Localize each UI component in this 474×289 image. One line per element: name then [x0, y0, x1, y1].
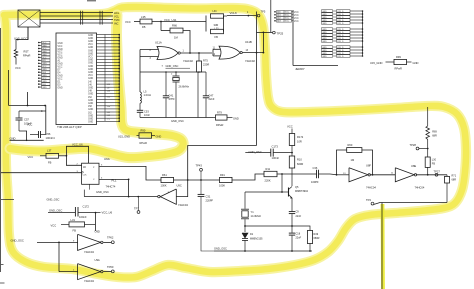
svg-text:GND: GND [88, 53, 93, 55]
resistor R75 220R [198, 53, 200, 61]
wire VCLK [227, 15, 257, 17]
svg-text:R60: R60 [348, 143, 353, 147]
svg-text:C31: C31 [206, 194, 211, 198]
wires U11A inputs [140, 49, 158, 51]
wire R61 to R91 [174, 179, 220, 181]
svg-text:VCLK: VCLK [230, 11, 237, 15]
svg-text:C41: C41 [169, 93, 174, 97]
capacitor C31 220PF [200, 180, 202, 194]
svg-text:GND: GND [88, 60, 93, 62]
svg-text:RPwR: RPwR [395, 67, 402, 71]
osc top bus [140, 71, 206, 73]
scan mark top edge [87, 0, 96, 2]
svg-text:L30: L30 [432, 158, 437, 161]
svg-text:VCC: VCC [51, 223, 57, 227]
svg-text:MMBV2105: MMBV2105 [250, 237, 263, 240]
svg-text:GND: GND [233, 116, 239, 120]
svg-text:R10: R10 [297, 158, 302, 162]
highlighter inner return stroke around R90 [10, 15, 183, 158]
capacitor C47 22nF [205, 72, 207, 96]
svg-text:22nF: 22nF [209, 97, 215, 101]
test point TP7 [137, 197, 139, 211]
svg-text:FB: FB [73, 228, 77, 232]
nor gate U11A [157, 47, 178, 60]
svg-text:22nF: 22nF [296, 215, 302, 218]
node VCC_U11 [160, 21, 162, 23]
svg-text:GND: GND [88, 47, 93, 49]
svg-text:U8F: U8F [366, 164, 371, 168]
wire to Q5 base [281, 174, 283, 192]
svg-text:220PF: 220PF [206, 198, 214, 202]
wire J2 row 1 [40, 12, 113, 14]
capacitor C172 100nF [74, 207, 76, 217]
capacitor C57 [18, 111, 20, 118]
transistor Q5 MMBT3904 [287, 188, 289, 197]
svg-text:VCC: VCC [287, 125, 293, 129]
wire R91 to R11 [232, 174, 264, 180]
wire preset loop [66, 146, 88, 163]
wire PLL output [99, 178, 129, 180]
wire R99 to GND [407, 61, 412, 63]
svg-text:FB: FB [215, 35, 219, 39]
svg-text:JERRY: JERRY [295, 67, 305, 71]
svg-text:GND: GND [88, 78, 93, 80]
svg-text:GND: GND [88, 69, 93, 71]
wire U8E output [416, 174, 447, 176]
U1 right pins and wires to bus [97, 34, 106, 36]
wire PLL down [128, 179, 130, 196]
svg-text:1D: 1D [83, 167, 86, 169]
capacitor C18 22nF [291, 226, 293, 233]
svg-text:U6A: U6A [104, 157, 110, 161]
IC U1 body TIM 206 ALT QFP [56, 33, 97, 125]
svg-text:680R: 680R [314, 237, 320, 240]
svg-text:R11: R11 [266, 167, 271, 171]
svg-text:GND: GND [58, 43, 63, 45]
svg-text:VCC_U11: VCC_U11 [164, 18, 177, 22]
svg-text:GND: GND [88, 94, 93, 96]
svg-text:R91: R91 [220, 173, 225, 177]
highlighter straight vertical line at TP4 [379, 204, 387, 289]
svg-text:10nF: 10nF [144, 113, 150, 117]
svg-text:C18: C18 [296, 232, 301, 235]
svg-text:TP60: TP60 [107, 265, 114, 269]
wire PLL to R61 bend [99, 166, 161, 180]
wire J2 to U13 [27, 27, 29, 40]
wire TP4 down (highlighted) [381, 203, 383, 289]
svg-text:TP62: TP62 [107, 236, 114, 240]
svg-text:74HC04: 74HC04 [178, 203, 188, 207]
wire TP25 node down to gate output [262, 32, 264, 52]
svg-text:VCC: VCC [88, 57, 93, 59]
svg-text:R49: R49 [314, 233, 319, 236]
test point TP62 [111, 241, 114, 244]
inverter U9A [78, 264, 101, 280]
svg-text:GND_OSC: GND_OSC [47, 198, 60, 202]
svg-text:GND: GND [88, 66, 93, 68]
wire to R99 [386, 61, 395, 63]
svg-text:220R: 220R [203, 62, 209, 66]
svg-text:22nF: 22nF [296, 237, 302, 240]
bus line right block [362, 11, 364, 56]
wire J2 row 3 [40, 19, 113, 21]
ferrite L33 FB [211, 29, 224, 33]
svg-text:GND: GND [42, 87, 47, 89]
ferrite bead L35 [140, 19, 152, 24]
svg-text:VCC: VCC [294, 12, 299, 14]
svg-text:TP7: TP7 [134, 206, 139, 210]
svg-text:GND_OSC: GND_OSC [96, 190, 109, 194]
svg-text:GND: GND [322, 41, 327, 43]
ferrite L30 FB [427, 174, 429, 176]
svg-text:RPwR: RPwR [23, 54, 30, 58]
svg-text:R71: R71 [452, 175, 457, 178]
svg-text:GND: GND [88, 38, 93, 40]
wire bus to U9A [59, 271, 78, 273]
crystal Y2 26.6MHz [175, 72, 177, 76]
svg-text:GND: GND [58, 87, 63, 89]
svg-text:C172: C172 [83, 204, 90, 208]
pin dots and boxed net labels [38, 42, 40, 44]
bus ripper rows right block [322, 10, 333, 13]
bus line right of U1 [118, 35, 120, 122]
wire R66 to output node [183, 31, 190, 54]
svg-text:74HC02: 74HC02 [183, 59, 193, 63]
wire inner [19, 110, 46, 112]
svg-text:GND_OSC: GND_OSC [249, 150, 262, 154]
svg-text:220K: 220K [265, 178, 271, 182]
inductor L5 1.0UH [140, 92, 141, 95]
wire R75 to ground bus [197, 72, 199, 118]
svg-text:VCC: VCC [58, 78, 63, 80]
resistor 33R [211, 14, 224, 18]
svg-text:U11A: U11A [155, 40, 162, 44]
svg-text:TP43: TP43 [196, 164, 203, 168]
wire left edge down to C57 loop [8, 70, 10, 106]
capacitor C56 [30, 134, 39, 136]
wire Y1 to base node [245, 191, 282, 193]
svg-text:L31: L31 [71, 218, 76, 222]
scan mark bottom left 2 [0, 282, 5, 284]
svg-text:TP25: TP25 [277, 32, 284, 36]
connector rows above JERRY [274, 11, 276, 13]
svg-text:L33: L33 [215, 27, 220, 30]
svg-text:GND: GND [88, 109, 93, 111]
test point TP60 [111, 270, 114, 273]
svg-text:U15_D: U15_D [337, 23, 344, 25]
svg-text:GND: GND [58, 75, 63, 77]
wire U9C input from VCLK net [176, 146, 256, 197]
svg-text:GND_OSC: GND_OSC [214, 247, 227, 251]
svg-text:C47: C47 [209, 93, 214, 97]
parallel block right wire [223, 16, 225, 32]
svg-text:100PF: 100PF [311, 180, 319, 184]
svg-text:L34: L34 [213, 10, 218, 13]
svg-text:GND: GND [88, 35, 93, 37]
svg-text:820R: 820R [297, 162, 303, 166]
capacitor C36 100PF [316, 170, 318, 178]
svg-text:100nF: 100nF [79, 215, 87, 219]
resistor R71 68R [446, 175, 448, 177]
svg-text:PLL: PLL [112, 179, 117, 183]
svg-text:U8E: U8E [411, 164, 416, 168]
wire GND_OSC to U9D [37, 241, 78, 243]
wire U8F to U8E [370, 174, 396, 176]
wire loop top [9, 106, 46, 135]
svg-text:VCC: VCC [28, 155, 34, 159]
wire R11 to C36 [277, 173, 317, 175]
wire U11A output [181, 52, 212, 54]
wire U9A to TP60 [103, 271, 111, 273]
test point TP28 [419, 148, 428, 150]
svg-text:VCC: VCC [125, 20, 131, 24]
svg-text:U15_D: U15_D [337, 41, 344, 43]
svg-text:TP27: TP27 [434, 169, 441, 173]
svg-text:VCC: VCC [88, 44, 93, 46]
resistor R90 RPwR [139, 133, 152, 138]
svg-text:C53: C53 [144, 110, 149, 114]
svg-text:1M: 1M [351, 158, 355, 162]
svg-text:C36: C36 [313, 166, 318, 170]
wire TP4 net [374, 203, 447, 205]
svg-text:L35: L35 [141, 15, 146, 19]
svg-text:U15_GND: U15_GND [370, 61, 382, 65]
svg-text:TMC: TMC [114, 18, 120, 22]
wire D1 node to C9 node [245, 225, 292, 227]
svg-text:GND: GND [88, 72, 93, 74]
wire R172 to R10 [291, 146, 293, 157]
svg-text:RST: RST [24, 49, 30, 53]
wire R10 to Q5 collector [291, 168, 293, 186]
svg-text:GND: GND [88, 50, 93, 52]
wire J2 row 2 [40, 15, 113, 17]
crystal Y1 14.3MHz [241, 208, 249, 210]
varactor D1 MMBV2105 [242, 233, 248, 238]
svg-text:GND: GND [58, 58, 63, 60]
scan border left edge [0, 28, 1, 272]
resistor R61 100K [161, 177, 174, 182]
pin ladder edge of U1 [104, 35, 106, 122]
svg-text:100K: 100K [161, 184, 167, 188]
resistor RST RPWR pullup [15, 40, 17, 50]
svg-text:MMBT3904: MMBT3904 [295, 190, 309, 193]
svg-text:VCC: VCC [294, 18, 299, 20]
svg-text:U15_D: U15_D [337, 56, 344, 58]
svg-text:INC: INC [114, 21, 119, 25]
inverter U8F [349, 168, 368, 182]
svg-text:100nF: 100nF [272, 156, 280, 160]
svg-text:GND: GND [413, 61, 419, 65]
svg-text:U9C: U9C [177, 184, 182, 188]
svg-text:GND: GND [10, 136, 16, 140]
resistor R11 220K [264, 171, 277, 176]
resistor R10 820R [289, 156, 294, 168]
svg-text:C173: C173 [272, 144, 279, 148]
svg-text:CLK: CLK [83, 174, 88, 176]
resistor R172 10R [289, 134, 294, 146]
svg-text:GND: GND [156, 134, 162, 138]
svg-text:VCC: VCC [294, 15, 299, 17]
svg-text:VCC: VCC [58, 52, 63, 54]
svg-text:1.0UH: 1.0UH [144, 93, 151, 97]
svg-text:C56: C56 [46, 132, 51, 136]
svg-text:GND_OSC: GND_OSC [11, 238, 24, 242]
svg-text:GND_OSC: GND_OSC [171, 119, 184, 123]
svg-text:68R: 68R [432, 135, 437, 138]
svg-text:RPwR: RPwR [216, 123, 223, 127]
svg-text:FB: FB [142, 25, 146, 29]
wire J2 row 4 [40, 22, 113, 24]
connector J2 body [18, 10, 40, 27]
wire L35 to node [152, 21, 206, 23]
svg-text:GND: GND [88, 41, 93, 43]
svg-text:RPwR: RPwR [140, 141, 147, 145]
svg-text:74HC04: 74HC04 [366, 186, 376, 190]
svg-text:R79: R79 [217, 111, 222, 115]
feedback resistor R60 1M [336, 174, 338, 176]
svg-text:GND_OSC: GND_OSC [166, 64, 179, 68]
svg-text:74HC04: 74HC04 [415, 186, 425, 190]
svg-text:100K: 100K [219, 184, 225, 188]
wire CLK input from left edge [1, 172, 82, 174]
flip-flop U6A body [82, 163, 99, 184]
wire TP25 row [257, 31, 273, 33]
wires U11B inputs [213, 48, 220, 50]
svg-text:33R: 33R [214, 23, 219, 27]
inverter U9C pointing left [160, 189, 176, 204]
svg-text:GND: GND [88, 115, 93, 117]
svg-text:HCL: HCL [114, 11, 120, 15]
svg-text:100nF4: 100nF4 [46, 136, 56, 140]
svg-text:R69: R69 [432, 130, 437, 133]
svg-text:GND: GND [88, 100, 93, 102]
svg-text:FB: FB [432, 163, 436, 166]
resistor R69 68R zigzag [427, 107, 429, 126]
svg-text:GND: GND [88, 88, 93, 90]
svg-text:TIM 206 ALT QFP: TIM 206 ALT QFP [57, 125, 82, 129]
wire R90 to GND [152, 135, 156, 137]
wire U9C output to U6A [84, 196, 157, 198]
resistor R66 1M [170, 28, 183, 33]
svg-text:VCC: VCC [58, 46, 63, 48]
svg-text:47PF: 47PF [169, 97, 176, 101]
wire VCC to L35 [134, 21, 140, 23]
svg-text:GND: GND [322, 23, 327, 25]
svg-text:R172: R172 [297, 135, 304, 139]
wire U11B output [243, 52, 264, 54]
svg-text:VCC: VCC [294, 21, 299, 23]
svg-text:R66: R66 [172, 23, 177, 27]
svg-text:R99: R99 [396, 55, 401, 59]
svg-text:TP5: TP5 [261, 10, 266, 14]
ferrite L37 FB [40, 155, 46, 157]
svg-text:TP28: TP28 [410, 143, 417, 147]
svg-text:GND: GND [88, 122, 93, 124]
svg-text:FB: FB [48, 160, 52, 164]
test point TP27 [435, 173, 438, 176]
svg-text:GND: GND [88, 119, 93, 121]
svg-text:TP4: TP4 [366, 198, 371, 202]
svg-text:74HC74: 74HC74 [106, 184, 116, 188]
svg-text:VCC: VCC [58, 67, 63, 69]
svg-text:GND: GND [88, 103, 93, 105]
svg-text:74HC04: 74HC04 [84, 279, 94, 283]
svg-text:GND: GND [58, 64, 63, 66]
wire U13_VCC node [16, 39, 28, 41]
ground bus GND [10, 139, 44, 141]
resistor R91 100K [220, 177, 233, 182]
svg-text:74HC02: 74HC02 [245, 59, 255, 63]
svg-text:R61: R61 [162, 173, 167, 177]
svg-text:Y1: Y1 [251, 210, 255, 214]
wire C57 to gnd [19, 131, 27, 140]
capacitor C173 100nF [245, 152, 270, 154]
wire stub above C57 loop [27, 92, 29, 106]
osc ground bus GND_OSC [140, 117, 213, 119]
svg-text:U9A: U9A [95, 258, 100, 262]
svg-text:100nF: 100nF [24, 121, 32, 125]
svg-text:10R: 10R [297, 139, 302, 143]
test point TP5 [257, 14, 260, 17]
inline jumper ticks A [80, 11, 82, 25]
resistor R79 RPwR [213, 117, 216, 119]
svg-text:U15_GND: U15_GND [118, 134, 130, 138]
nor gate U11B [219, 46, 240, 59]
parallel block left wire [205, 16, 207, 32]
svg-text:26.6MHz: 26.6MHz [179, 85, 190, 89]
wire VCLK net down to lower section [256, 12, 258, 146]
scan mark bottom left 1 [0, 264, 4, 266]
ground bus GND_OSC bottom [214, 250, 312, 252]
svg-text:GND: GND [322, 56, 327, 58]
capacitor C53 10nF [139, 103, 141, 110]
wire L37 to U6A [59, 155, 67, 157]
svg-text:GND_OSC: GND_OSC [49, 208, 62, 212]
wire Y1 to D1 [244, 219, 246, 232]
inline jumper ticks B [99, 11, 101, 25]
svg-text:U9D: U9D [95, 230, 100, 234]
svg-text:VCC_U6: VCC_U6 [102, 210, 113, 214]
wire D input [66, 156, 81, 166]
inverter U9D [78, 234, 101, 250]
ferrite L31 FB [61, 223, 69, 225]
wire to C172 [48, 212, 75, 214]
svg-text:GND: GND [88, 63, 93, 65]
wire VCC_U6 node down [95, 213, 97, 225]
wire U9D to TP62 [103, 241, 111, 243]
svg-text:68R: 68R [452, 179, 457, 182]
resistor R99 RPWR [394, 59, 407, 64]
svg-text:VCC: VCC [15, 66, 21, 70]
svg-text:VCC_U6: VCC_U6 [72, 142, 83, 146]
inverter U8E [395, 168, 414, 182]
wire U6A clear stub to clk net [83, 190, 85, 197]
wire U6A clear pin [89, 184, 91, 189]
svg-text:R75: R75 [203, 59, 208, 63]
wire L31 node down [95, 224, 97, 231]
svg-text:VCC: VCC [285, 21, 290, 23]
test point TP25 [273, 31, 276, 34]
svg-text:C57: C57 [24, 117, 29, 121]
wire node down to R66 [160, 22, 162, 31]
svg-text:VCL: VCL [114, 14, 120, 18]
svg-text:GND: GND [58, 49, 63, 51]
svg-text:R90: R90 [141, 129, 146, 133]
connector JERRY body wire [292, 10, 294, 66]
svg-text:L37: L37 [47, 148, 52, 152]
wire to R90 [137, 135, 140, 137]
wire JERRY bottom [293, 65, 338, 67]
